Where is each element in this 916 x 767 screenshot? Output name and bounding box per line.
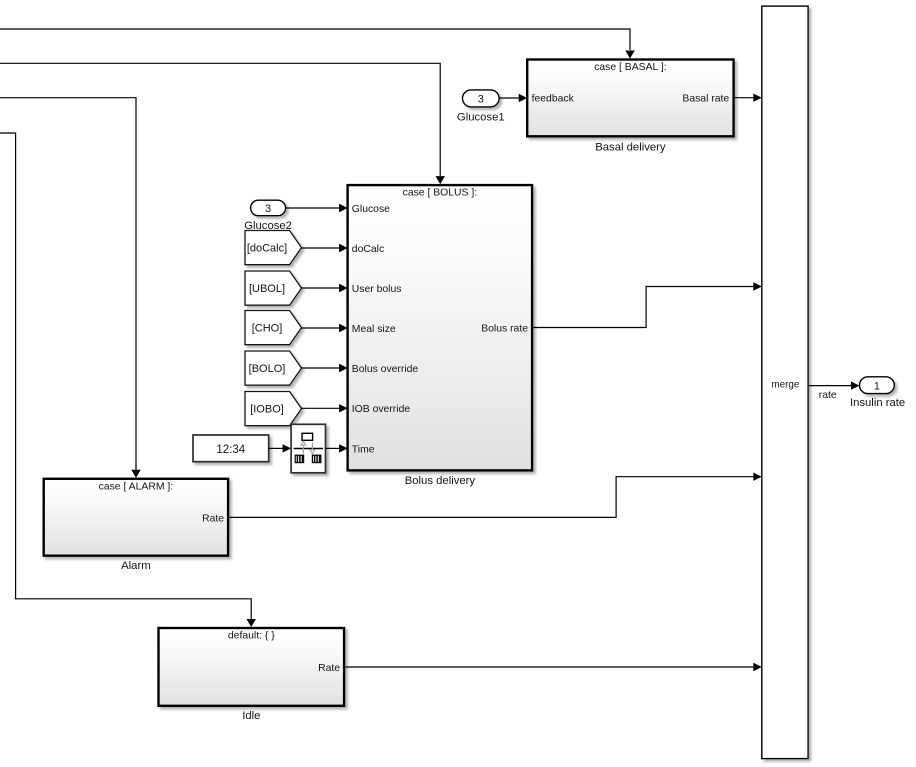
- inport Glucose2: [244, 200, 292, 232]
- svg-text:Idle: Idle: [242, 710, 260, 722]
- svg-text:Time: Time: [352, 444, 375, 455]
- wire Glucose2 to Glucose: [286, 207, 340, 209]
- svg-text:merge: merge: [772, 380, 800, 391]
- wire W2 to Bolus top: [0, 63, 440, 176]
- from tag IOBO: [245, 392, 302, 426]
- svg-text:User bolus: User bolus: [352, 284, 402, 295]
- svg-text:Rate: Rate: [318, 663, 340, 674]
- svg-text:case [ ALARM ]:: case [ ALARM ]:: [99, 481, 174, 492]
- wire Merge to Insulin rate: [808, 385, 851, 387]
- wire W4 to Idle top: [0, 133, 251, 619]
- wire IOBO: [302, 407, 340, 409]
- svg-text:Insulin rate: Insulin rate: [850, 397, 905, 409]
- wire BOLO: [302, 367, 340, 369]
- svg-text:default: { }: default: { }: [228, 631, 275, 642]
- wire UBOL: [302, 287, 340, 289]
- wire clock to converter: [269, 447, 283, 449]
- wire Bolus rate to Merge: [532, 287, 753, 328]
- svg-text:Glucose: Glucose: [352, 204, 390, 215]
- svg-text:Bolus override: Bolus override: [352, 364, 419, 375]
- block Digital Clock 12:34: [193, 435, 269, 462]
- svg-text:12:34: 12:34: [216, 444, 245, 456]
- svg-text:Meal size: Meal size: [352, 324, 396, 335]
- svg-text:Basal delivery: Basal delivery: [595, 142, 666, 154]
- svg-text:Rate: Rate: [202, 513, 224, 524]
- from tag UBOL: [245, 271, 302, 305]
- svg-text:[CHO]: [CHO]: [252, 322, 283, 334]
- wire Alarm Rate to Merge: [228, 477, 753, 518]
- block Bolus delivery: [348, 185, 532, 487]
- svg-text:Alarm: Alarm: [121, 560, 151, 572]
- svg-text:[UBOL]: [UBOL]: [249, 283, 285, 295]
- outport Insulin rate: [850, 377, 905, 409]
- from tag doCalc: [245, 231, 302, 265]
- block Merge: [762, 6, 808, 759]
- block time converter: [291, 424, 325, 473]
- wire W1 to Basal top: [0, 29, 630, 50]
- svg-text:1: 1: [874, 380, 880, 392]
- svg-text:case [ BASAL ]:: case [ BASAL ]:: [594, 62, 666, 73]
- from tag CHO: [245, 311, 302, 345]
- svg-text:Bolus delivery: Bolus delivery: [405, 475, 476, 487]
- svg-text:3: 3: [478, 93, 484, 105]
- wire Glucose1 to feedback: [499, 97, 519, 99]
- svg-text:[doCalc]: [doCalc]: [247, 243, 287, 255]
- svg-text:[IOBO]: [IOBO]: [250, 403, 284, 415]
- svg-text:3: 3: [265, 203, 271, 215]
- svg-text:Basal rate: Basal rate: [682, 93, 729, 104]
- wire Basal rate to Merge: [734, 97, 754, 99]
- wire converter to Time: [326, 447, 340, 449]
- wire W3 to Alarm top: [0, 98, 136, 470]
- inport Glucose1: [457, 90, 505, 124]
- wire CHO: [302, 327, 340, 329]
- block Alarm: [44, 479, 228, 572]
- wire doCalc: [302, 247, 340, 249]
- svg-text:Bolus rate: Bolus rate: [481, 323, 528, 334]
- svg-text:case [ BOLUS ]:: case [ BOLUS ]:: [403, 188, 478, 199]
- block Basal delivery: [527, 60, 733, 154]
- svg-text:Glucose1: Glucose1: [457, 112, 505, 124]
- wire Idle Rate to Merge: [344, 666, 753, 668]
- svg-text:doCalc: doCalc: [352, 244, 384, 255]
- block Idle: [159, 628, 345, 722]
- from tag BOLO: [245, 351, 302, 385]
- svg-text:IOB override: IOB override: [352, 404, 411, 415]
- svg-text:[BOLO]: [BOLO]: [249, 363, 286, 375]
- svg-text:rate: rate: [819, 390, 837, 401]
- svg-text:feedback: feedback: [532, 93, 575, 104]
